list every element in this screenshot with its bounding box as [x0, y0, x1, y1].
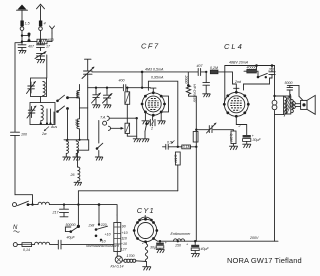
tone capacitor 50000 with switch — [65, 205, 80, 240]
svg-text:1,5: 1,5 — [25, 22, 30, 26]
svg-text:600: 600 — [48, 38, 54, 42]
long HT rail right — [274, 66, 276, 242]
mains switch — [18, 201, 34, 206]
capacitor C 17 — [37, 42, 45, 51]
oscillator coil rail — [79, 85, 81, 91]
svg-text:40μF: 40μF — [201, 247, 210, 251]
rotated scale labels — [66, 98, 79, 141]
tube CF7 top cap — [150, 88, 156, 93]
wire to electrolytic 26 — [78, 140, 89, 167]
svg-text:0,3M: 0,3M — [229, 134, 233, 142]
svg-text:1700: 1700 — [127, 254, 135, 258]
grid leak wire to rail — [148, 81, 177, 147]
wire grid bus left — [88, 87, 123, 89]
tube CL4 top cap — [234, 80, 242, 92]
capacitor grid CL4 to ground — [203, 71, 211, 97]
supply wire 48BV — [225, 66, 275, 100]
svg-text:4: 4 — [44, 22, 46, 26]
trimmer capacitor antenna — [35, 52, 46, 60]
wire antenna row 2 — [22, 33, 52, 42]
wire box L1 top feed — [46, 55, 48, 78]
link plug between rows — [28, 33, 31, 43]
svg-text:0,14: 0,14 — [23, 248, 30, 252]
resistor cathode CL4 (box) — [229, 131, 236, 146]
ground under 40uF — [191, 254, 199, 257]
capacitor C 217 across mains — [52, 203, 69, 216]
resistor R screen (vertical box) — [125, 87, 130, 124]
svg-text:N: N — [13, 225, 18, 231]
trimmer C in box L2 — [27, 106, 36, 118]
svg-text:200: 200 — [75, 119, 79, 126]
switch S5 tone — [256, 71, 267, 78]
resistor grid CL4 horizontal box — [177, 145, 198, 149]
svg-text:0,1M: 0,1M — [183, 145, 191, 149]
oscillator coil L3a — [75, 90, 79, 108]
coil L1 winding — [43, 82, 45, 96]
trimmer pair mid — [92, 87, 101, 108]
svg-text:127: 127 — [121, 248, 128, 252]
svg-text:NORA GW17 Tiefland: NORA GW17 Tiefland — [227, 256, 302, 265]
svg-text:HF-Drossel: HF-Drossel — [193, 84, 197, 102]
junction TA wire — [136, 117, 138, 119]
svg-text:+10: +10 — [121, 242, 127, 246]
bracket marker — [150, 120, 155, 126]
tube CL4 screen feed — [223, 99, 226, 104]
svg-text:+10: +10 — [122, 231, 128, 235]
ground under 30uF — [243, 144, 251, 147]
svg-text:110: 110 — [121, 237, 127, 241]
coil L2 winding — [41, 106, 44, 124]
ground under rail — [133, 139, 141, 142]
svg-text:Normalanschlussord: Normalanschlussord — [86, 244, 120, 248]
coil L2 taps — [40, 109, 54, 125]
wire A1 down — [21, 30, 23, 41]
svg-text:+: + — [165, 241, 167, 245]
svg-text:50000: 50000 — [66, 223, 76, 227]
svg-text:150: 150 — [175, 244, 181, 248]
oscillator coil L3b — [75, 108, 80, 140]
wire A2 down — [40, 30, 42, 41]
capacitor series mains N — [58, 240, 113, 249]
tube CY1 heater filament — [141, 241, 148, 267]
svg-text:40000: 40000 — [247, 65, 257, 69]
tube CF7 heater lead right to ground — [158, 112, 166, 124]
electrolytic C 26 — [70, 167, 80, 182]
jog to tuning rail — [80, 107, 88, 109]
svg-text:2x8: 2x8 — [88, 223, 95, 227]
ground under CY1 heater — [143, 267, 151, 270]
resistor grid stopper (box) — [210, 66, 236, 89]
ground under 30u — [156, 250, 164, 253]
capacitor across primary 5000 — [285, 81, 300, 98]
mains choke L top — [33, 202, 118, 215]
coupling capacitor C 407 (series) — [197, 64, 207, 75]
mains terminal N — [13, 243, 17, 247]
svg-text:+: + — [186, 243, 188, 247]
DC output wire — [154, 239, 279, 243]
terminal socket A2 — [39, 27, 43, 31]
junction dots row1 — [21, 34, 23, 36]
svg-text:+10: +10 — [100, 239, 106, 243]
junction dot mains wire — [98, 203, 101, 206]
HF-Drossel choke — [184, 75, 196, 130]
svg-text:5000: 5000 — [285, 81, 293, 85]
dial lamp — [111, 252, 124, 269]
speaker terminals — [292, 102, 295, 109]
output transformer secondary — [291, 100, 293, 113]
svg-text:2000: 2000 — [184, 75, 188, 84]
label Aus with arrow — [41, 125, 57, 136]
main tuning gang C with arrow — [82, 59, 94, 86]
ground under C26 — [74, 182, 82, 185]
svg-text:CY1: CY1 — [137, 206, 155, 215]
supply drop to grid bus — [141, 72, 143, 89]
ground under S4 — [142, 139, 150, 142]
band switch S1 — [56, 95, 69, 102]
tone capacitor with arrow — [207, 123, 217, 133]
svg-text:4M3 0,5mA: 4M3 0,5mA — [145, 67, 164, 71]
svg-text:0,2M: 0,2M — [210, 66, 218, 70]
svg-text:0,5M: 0,5M — [174, 155, 178, 163]
coil L4b to ground — [73, 140, 81, 160]
heater wire rise — [78, 191, 177, 205]
wave switch S3 to ground — [95, 121, 103, 161]
tube CF7 cathode lead left to ground — [142, 112, 150, 124]
svg-text:CL4: CL4 — [224, 42, 244, 51]
resistor feedback (hatched) — [244, 65, 257, 73]
tube CF7 anode strap — [161, 96, 168, 112]
svg-text:2: 2 — [141, 241, 144, 245]
ground under CL4 resistor — [229, 146, 237, 149]
svg-text:2: 2 — [150, 127, 153, 131]
svg-text:2w: 2w — [41, 132, 47, 136]
junction dot anode wire — [141, 71, 144, 74]
svg-text:26: 26 — [70, 173, 75, 177]
fuse F2 — [39, 21, 42, 27]
coil L4a to ground — [63, 140, 71, 160]
svg-text:400: 400 — [119, 79, 125, 83]
switch S4 (TA switch) — [145, 123, 148, 139]
voltage selector switch 220 — [86, 205, 120, 248]
capacitor C 100 (series in rail) — [11, 132, 20, 195]
resistor R 600 (hatched) — [37, 39, 47, 44]
ground under C407 — [19, 50, 27, 53]
tube CF7 envelope — [141, 91, 166, 116]
resistor TA load (box) — [125, 123, 137, 138]
padder capacitor 5000 — [103, 87, 113, 108]
TA jack (Tonabnehmer) — [100, 115, 110, 130]
tube CF7 center lead — [150, 115, 153, 130]
tube CL4 envelope — [223, 91, 250, 118]
junction dots row2 — [21, 40, 23, 42]
svg-text:200V: 200V — [249, 236, 259, 240]
svg-text:100: 100 — [21, 132, 27, 136]
band filter box L1 — [31, 78, 47, 97]
svg-text:407: 407 — [28, 45, 35, 49]
svg-text:KH 0,14: KH 0,14 — [111, 265, 124, 269]
svg-text:2nd: 2nd — [234, 80, 242, 84]
svg-text:T.A.: T.A. — [100, 115, 106, 119]
wire rail to transformer — [275, 96, 284, 115]
output transformer primary — [284, 94, 291, 117]
svg-text:Entbrummer: Entbrummer — [171, 232, 192, 236]
tube CL4 cathode lead — [236, 116, 240, 128]
electrolytic CL4 cathode 30uF — [236, 125, 261, 145]
wire tone network — [196, 130, 233, 131]
svg-text:546: 546 — [75, 93, 79, 99]
Entbrummer hum pot — [171, 232, 192, 248]
junction mid rail — [195, 129, 197, 131]
svg-text:217: 217 — [52, 211, 60, 215]
svg-text:0,95mA: 0,95mA — [151, 76, 164, 80]
svg-text:90: 90 — [122, 225, 126, 229]
resistor on mid rail — [193, 132, 198, 143]
fuse F1 1,5 — [20, 21, 23, 27]
trimmer C in box L1 — [27, 82, 36, 94]
tube CY1 envelope — [133, 218, 158, 243]
svg-text:+10: +10 — [105, 233, 111, 237]
capacitor C 400 (series) — [119, 79, 151, 91]
terminal socket A1 — [20, 27, 24, 31]
svg-text:30μF: 30μF — [253, 138, 262, 142]
supply wire CF7 anode — [92, 72, 198, 86]
band switch S2 — [56, 106, 69, 113]
svg-text:48BV 20mA: 48BV 20mA — [229, 61, 249, 65]
antenna A3 (short aerial fork) — [50, 26, 55, 33]
voltage selector resistor (tall box) — [114, 215, 128, 252]
mains choke L bottom — [32, 242, 58, 244]
wire coil bottom bus — [64, 139, 89, 141]
band filter box L2 — [30, 103, 55, 125]
svg-text:17: 17 — [46, 45, 51, 49]
wire TA lower contact with arrow — [111, 127, 124, 130]
svg-text:CF7: CF7 — [141, 42, 160, 51]
wire TA to rail — [110, 117, 137, 119]
coupling cap 0,5 to CL4 — [163, 140, 178, 149]
fuse 0,14 — [17, 243, 31, 252]
tuning rail down — [87, 86, 89, 140]
speaker — [295, 95, 315, 114]
svg-text:Aus: Aus — [50, 125, 57, 129]
svg-text:407: 407 — [197, 64, 204, 68]
jack pair on rail — [272, 95, 277, 110]
ground under trimmer — [37, 60, 45, 63]
mains terminal L — [13, 203, 17, 207]
resistor vertical 0,5M mid — [174, 152, 181, 191]
electrolytic 30u — [150, 241, 167, 249]
wire antenna row 1 — [22, 35, 29, 37]
wire rail to mains switch — [15, 195, 33, 204]
electrolytic 40uF — [186, 241, 209, 253]
svg-text:40μF: 40μF — [67, 236, 76, 240]
antenna A1 (roof aerial) — [17, 5, 28, 21]
wire left rail top — [15, 43, 22, 132]
capacitor C 407 — [18, 42, 26, 51]
resistor 1700 coil — [122, 254, 146, 262]
mains symbol N — [13, 225, 20, 232]
tube CY1 anode leads — [138, 215, 153, 221]
antenna A2 (arrow aerial) — [37, 4, 45, 20]
junction dots 48BV — [255, 64, 258, 67]
wire between band filters — [40, 97, 42, 103]
rail mid down — [195, 130, 197, 242]
capacitor C 207 — [244, 66, 276, 91]
svg-text:30μ: 30μ — [150, 246, 156, 250]
